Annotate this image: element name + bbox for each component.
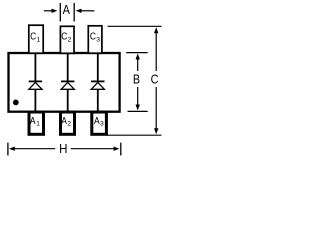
diode D3 <box>91 53 104 113</box>
svg-text:3: 3 <box>100 121 104 128</box>
pin C3 <box>88 26 102 53</box>
dimension A (top pin width) <box>44 3 95 22</box>
diode D2 <box>61 53 74 113</box>
pin A1 <box>29 112 44 134</box>
svg-text:C: C <box>61 29 67 41</box>
pin C1 <box>29 25 43 53</box>
svg-text:C: C <box>30 29 36 41</box>
pin A2 <box>61 112 75 134</box>
dimension B (body height) <box>126 53 148 112</box>
package body <box>9 53 120 112</box>
pin A3 <box>92 112 107 134</box>
svg-text:A: A <box>63 2 70 17</box>
svg-text:1: 1 <box>37 36 41 43</box>
diode D1 <box>29 53 42 113</box>
pin C2 <box>60 26 74 53</box>
dimension H (body width) <box>8 143 121 156</box>
svg-text:C: C <box>151 72 159 87</box>
svg-text:3: 3 <box>96 36 100 43</box>
svg-text:H: H <box>59 141 67 156</box>
pin-1 dot <box>13 100 19 106</box>
dimension C (overall height) <box>107 26 162 135</box>
svg-text:2: 2 <box>67 121 71 128</box>
svg-text:B: B <box>133 72 140 87</box>
svg-text:C: C <box>90 29 96 41</box>
svg-text:2: 2 <box>68 36 72 43</box>
svg-text:1: 1 <box>36 121 40 128</box>
